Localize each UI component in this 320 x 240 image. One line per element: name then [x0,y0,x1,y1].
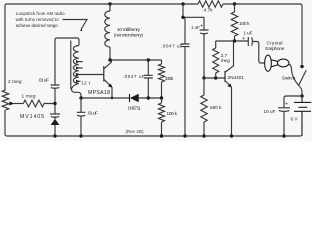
capacitor 1 uF (output electrolytic) [248,37,252,46]
svg-text:Earphone: Earphone [265,46,284,51]
svg-text:MV1405: MV1405 [20,114,44,120]
svg-text:.01 uF: .01 uF [87,111,98,116]
svg-text:100 k: 100 k [239,21,250,26]
wire base 2N4401 [204,77,225,79]
crystal earphone [265,55,272,71]
svg-text:1N5711: 1N5711 [128,105,142,110]
svg-text:.0047 uF: .0047 uF [123,74,145,79]
tap arrow 2 [79,67,83,69]
svg-text:6 V: 6 V [291,117,299,122]
resistor R 4.7k (top rail) [198,1,223,7]
svg-text:100 k: 100 k [167,111,178,116]
svg-text:1 meg: 1 meg [22,93,36,99]
resistor 1 meg [23,100,55,107]
svg-text:12 t: 12 t [81,81,91,86]
svg-text:680 k: 680 k [210,105,222,110]
wire collector rail y60 [110,59,162,61]
svg-text:10 millihenry: 10 millihenry [117,27,141,32]
svg-text:.01 uF: .01 uF [38,77,49,83]
wire battery top node [300,94,303,97]
wire left rail lower [5,110,7,136]
wire tank top [55,38,79,46]
svg-text:1 uF: 1 uF [244,30,253,35]
node varactor-ground [53,134,56,137]
capacitor .01 uF (emitter bypass) [80,98,82,136]
wire outer loop: top rail [7,4,302,65]
svg-text:+: + [242,36,245,42]
capacitor .01 uF (tank) [51,85,60,88]
tap arrow base wire [79,74,104,76]
svg-text:MPSA18: MPSA18 [88,90,110,96]
svg-text:(not microhenry): (not microhenry) [114,32,143,37]
svg-text:330k: 330k [165,76,174,81]
svg-text:.0047 uF: .0047 uF [161,43,183,48]
capacitor 1 uF (base electrolytic) [203,17,205,78]
svg-text:Switch: Switch [282,75,296,80]
svg-text:Loopstick from AM radio: Loopstick from AM radio [16,11,65,16]
switch [300,65,303,68]
svg-text:2 meg: 2 meg [8,79,22,85]
battery 6 V [301,96,303,136]
pot wiper arrow [14,103,23,105]
capacitor .0047 uF (supply bypass) [184,17,186,136]
svg-text:4.7k: 4.7k [204,7,214,13]
resistor 100 k (collector) [233,2,236,5]
node 1meg/varactor [53,102,56,105]
svg-text:+: + [285,102,288,108]
loopstick core line [70,41,72,90]
wire B+ drop to bypass cap [181,2,184,5]
capacitor .0047 uF (detector) [147,60,149,98]
inductor 10 millihenry [108,2,111,5]
wire node 41 [216,40,249,42]
resistor 330k [161,60,163,64]
svg-text:10 uF: 10 uF [264,109,276,114]
potentiometer 2 meg (left rail) [2,90,9,110]
varactor MV1405 [50,114,60,117]
wire earphone to switch node [289,64,299,86]
note arrow [63,20,88,30]
wire coil bottom hook [71,84,81,99]
resistor 2.7 meg [215,41,217,48]
tap arrow 1 [79,61,83,63]
svg-text:1 uF: 1 uF [191,25,200,30]
transistor 2N4401 [224,71,226,82]
diode 1N5711 [129,94,131,102]
wire emitter/detector y98 [81,97,162,99]
svg-text:Crystal: Crystal [267,41,283,46]
transistor MPSA18 [103,66,105,82]
svg-text:with turns removed to: with turns removed to [16,17,60,22]
resistor 100 k (emitter load) [161,98,163,103]
svg-text:(Rev 2B): (Rev 2B) [126,129,145,134]
svg-text:achieve desired range: achieve desired range [16,23,59,28]
wire varactor chain vertical [54,40,56,136]
inductor loopstick winding [73,46,78,84]
svg-text:2N4401: 2N4401 [228,75,245,80]
capacitor 10 uF (supply electrolytic) [278,108,290,112]
svg-text:+: + [200,24,203,30]
wire left rail [5,4,7,90]
wire bottom rail [7,111,302,136]
tap arrow 12 t [79,80,81,82]
resistor 680 k [201,95,207,122]
svg-text:meg: meg [221,58,230,63]
